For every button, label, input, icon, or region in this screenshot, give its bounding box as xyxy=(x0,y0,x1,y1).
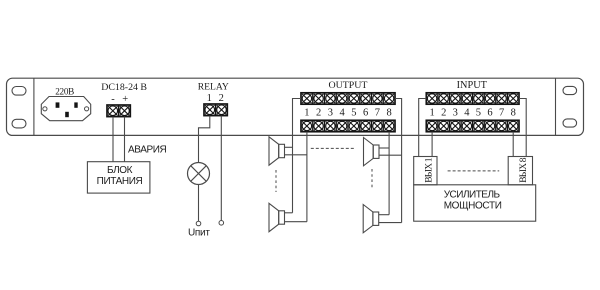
wire OUTPUT terminal 1 down rail xyxy=(306,132,308,222)
svg-text:2: 2 xyxy=(219,93,224,104)
svg-text:6: 6 xyxy=(487,108,492,119)
wire LS1 - to terminal 1 rail xyxy=(285,154,307,156)
svg-text:+: + xyxy=(122,94,128,105)
terminal block INPUT upper row (8 screw terminals) xyxy=(426,93,519,104)
svg-text:7: 7 xyxy=(499,108,504,119)
wire INPUT terminal 1 to ВЫХ1 xyxy=(431,132,433,157)
loudspeaker LS2 (output channel 1, last speaker) xyxy=(269,203,285,231)
svg-text:4: 4 xyxy=(339,108,345,119)
svg-text:АВАРИЯ: АВАРИЯ xyxy=(128,145,167,156)
wire OUTPUT upper row right side to common rail xyxy=(395,99,402,223)
dashed continuation between LS3 and LS4 xyxy=(371,169,373,189)
power supply unit БЛОК ПИТАНИЯ xyxy=(87,162,149,193)
wire LS4 - to right common rail end xyxy=(379,222,402,224)
wire LS3 - to right common rail xyxy=(379,154,402,156)
svg-text:8: 8 xyxy=(386,108,391,119)
wire OUTPUT terminal 8 down rail xyxy=(388,132,390,215)
wire LS2 - to terminal 1 rail end xyxy=(285,221,307,223)
svg-text:3: 3 xyxy=(328,108,333,119)
dashed continuation between amplifier outputs xyxy=(448,170,500,172)
terminal block X3 RELAY (2 screw terminals) xyxy=(204,104,227,116)
loudspeaker LS4 (output channel 8, last speaker) xyxy=(363,205,378,233)
OUTPUT pin numbers 1-8 xyxy=(304,108,391,119)
wire lamp to Uпит terminal xyxy=(198,185,200,222)
svg-text:3: 3 xyxy=(453,108,458,119)
label RELAY xyxy=(198,82,229,93)
svg-text:-: - xyxy=(111,94,115,105)
label 220В xyxy=(55,87,74,97)
terminal block X2 DC18-24V (2 screw terminals) xyxy=(107,105,130,117)
wire LS4 + to terminal 8 rail end xyxy=(379,214,389,216)
svg-text:OUTPUT: OUTPUT xyxy=(329,80,368,91)
terminal block INPUT lower row (8 screw terminals) xyxy=(426,120,519,131)
wire DC+ terminal to power supply xyxy=(124,117,126,162)
wire relay pin2 to Uпит terminal xyxy=(220,116,222,221)
terminal block OUTPUT upper row (8 screw terminals) xyxy=(301,93,395,104)
svg-text:2: 2 xyxy=(316,108,321,119)
amplifier output box ВЫХ 1 xyxy=(414,157,437,185)
wire LS3 + to terminal 8 rail xyxy=(379,147,389,149)
svg-text:МОЩНОСТИ: МОЩНОСТИ xyxy=(444,201,502,212)
svg-text:ВЫХ 8: ВЫХ 8 xyxy=(519,157,529,183)
left rack ear separator line xyxy=(33,78,35,135)
svg-text:ПИТАНИЯ: ПИТАНИЯ xyxy=(97,176,143,187)
power amplifier УСИЛИТЕЛЬ МОЩНОСТИ xyxy=(414,185,536,221)
label АВАРИЯ (alarm) xyxy=(128,145,167,156)
svg-text:ВЫХ 1: ВЫХ 1 xyxy=(425,157,435,183)
terminal Uпит left (open circle) xyxy=(196,221,201,226)
svg-text:220В: 220В xyxy=(55,87,74,97)
dashed continuation between LS1 and LS2 xyxy=(275,170,277,192)
dashed continuation between output channels xyxy=(311,147,354,149)
svg-text:УСИЛИТЕЛЬ: УСИЛИТЕЛЬ xyxy=(444,190,501,201)
wire relay pin1 to lamp xyxy=(199,116,210,163)
polarity labels - + xyxy=(111,94,128,105)
AC mains inlet 220V (IEC C14 socket) xyxy=(41,97,90,121)
svg-text:INPUT: INPUT xyxy=(457,80,488,91)
loudspeaker LS1 (output channel 1) xyxy=(269,137,285,165)
left ear mounting holes xyxy=(12,87,26,128)
svg-text:2: 2 xyxy=(441,108,446,119)
svg-text:6: 6 xyxy=(363,108,368,119)
svg-text:1: 1 xyxy=(207,93,212,104)
label INPUT xyxy=(457,80,488,91)
svg-text:1: 1 xyxy=(304,108,309,119)
label DC18-24 В xyxy=(101,82,147,93)
wire INPUT upper row right side to amplifier output ВЫХ8 xyxy=(519,99,526,157)
svg-text:5: 5 xyxy=(476,108,481,119)
wire INPUT terminal 8 to ВЫХ8 xyxy=(512,132,514,157)
label OUTPUT xyxy=(329,80,368,91)
svg-text:4: 4 xyxy=(464,108,470,119)
relay pin numbers 1 2 xyxy=(207,93,224,104)
svg-text:8: 8 xyxy=(511,108,516,119)
loudspeaker LS3 (output channel 8) xyxy=(364,138,380,166)
wire LS1 + to common rail xyxy=(285,146,293,148)
wire OUTPUT upper row left side to common rail xyxy=(293,99,302,213)
svg-text:DC18-24 В: DC18-24 В xyxy=(101,82,147,93)
lamp HL (indicator) symbol xyxy=(188,163,210,185)
svg-text:1: 1 xyxy=(429,108,434,119)
rack panel rear view outline xyxy=(7,78,584,135)
right rack ear separator line xyxy=(555,78,557,135)
wire DC- terminal to power supply xyxy=(112,117,114,162)
terminal Uпит right (open circle) xyxy=(219,221,224,226)
svg-text:RELAY: RELAY xyxy=(198,82,229,93)
wire LS2 + to common rail end xyxy=(285,212,293,214)
INPUT pin numbers 1-8 xyxy=(429,108,515,119)
wire INPUT upper row left side to amplifier output ВЫХ1 xyxy=(419,99,427,157)
label Uпит xyxy=(188,227,210,238)
svg-text:БЛОК: БЛОК xyxy=(107,165,133,176)
svg-text:7: 7 xyxy=(375,108,380,119)
right ear mounting holes xyxy=(563,86,577,127)
svg-text:Uпит: Uпит xyxy=(188,227,210,238)
amplifier output box ВЫХ 8 xyxy=(508,157,532,185)
terminal block OUTPUT lower row (8 screw terminals) xyxy=(301,120,395,131)
svg-text:5: 5 xyxy=(351,108,356,119)
